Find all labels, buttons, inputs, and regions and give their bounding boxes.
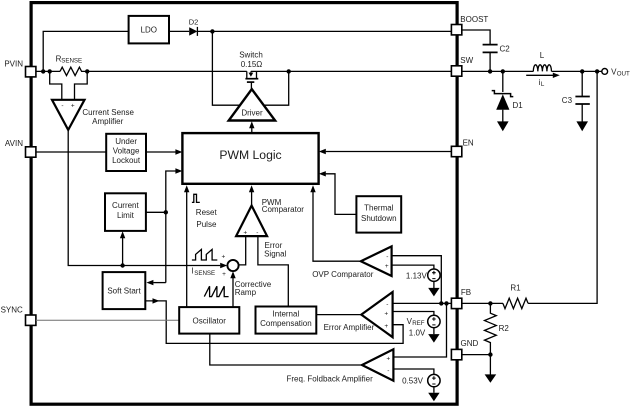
node current limit junction: [164, 210, 168, 214]
block internal compensation: [256, 307, 317, 334]
wire AVIN to UVLO: [36, 151, 106, 153]
wire branch down to driver right: [264, 71, 289, 105]
node C2 junction: [488, 69, 492, 73]
ground D1: [497, 121, 509, 131]
svg-text:Shutdown: Shutdown: [361, 214, 397, 223]
wire thermal shutdown to PWM logic: [326, 174, 357, 215]
svg-text:+: +: [384, 310, 388, 317]
pin AVIN: [5, 139, 36, 157]
svg-text:Comparator: Comparator: [262, 205, 305, 214]
block thermal shutdown: [356, 196, 401, 232]
svg-text:Driver: Driver: [241, 108, 263, 117]
wire LDO to D2: [169, 30, 189, 32]
wire foldback output to oscillator: [210, 334, 362, 365]
svg-text:1.0V: 1.0V: [409, 328, 426, 337]
wire amp output to Isense line: [68, 130, 220, 266]
wire SYNC to oscillator: [36, 319, 179, 321]
svg-text:L: L: [540, 51, 545, 60]
wire current limit output: [146, 211, 166, 213]
wire oscillator to PWM logic (reset): [186, 192, 188, 307]
terminal VOUT: [602, 67, 630, 77]
svg-text:-: -: [61, 103, 63, 110]
pin EN: [451, 138, 474, 156]
svg-text:Soft Start: Soft Start: [107, 286, 141, 295]
svg-text:D2: D2: [189, 17, 199, 26]
node FB divider junction: [595, 69, 599, 73]
svg-text:GND: GND: [461, 339, 479, 348]
ground 0.53V: [433, 387, 435, 393]
regulator LDO: [129, 16, 169, 44]
IC boundary: [31, 3, 457, 405]
svg-text:Amplifier: Amplifier: [92, 117, 123, 126]
svg-text:+: +: [384, 323, 388, 330]
buffer driver: [229, 89, 275, 120]
svg-text:Current: Current: [112, 201, 139, 210]
wire junction up to PWM logic: [166, 171, 176, 283]
svg-text:EN: EN: [463, 138, 474, 147]
wire SW rail to inductor: [462, 70, 534, 72]
svg-text:+: +: [222, 253, 226, 260]
svg-text:+: +: [222, 271, 226, 278]
node current limit tap: [120, 263, 124, 267]
wire GND pin to R2: [462, 354, 491, 356]
node FB-R2 junction: [488, 301, 492, 305]
svg-text:SYNC: SYNC: [1, 305, 23, 314]
pin SYNC: [1, 305, 36, 325]
wire D2 to BOOST pin: [197, 30, 451, 32]
svg-text:R2: R2: [499, 324, 510, 333]
wire comparator plus input to summing node: [239, 236, 246, 265]
ground VREF: [433, 328, 435, 335]
node RSENSE right: [85, 69, 89, 73]
svg-text:L: L: [541, 81, 545, 88]
wire junction down to soft start: [153, 282, 166, 284]
wire OVP minus input to FB: [392, 256, 442, 304]
svg-text:-: -: [386, 301, 388, 308]
svg-text:Compensation: Compensation: [260, 319, 312, 328]
wire R2 to ground: [489, 355, 491, 375]
arrow Isense into summing node: [220, 263, 227, 268]
svg-text:0.53V: 0.53V: [402, 376, 424, 385]
svg-text:-: -: [386, 253, 388, 260]
node boost-driver branch: [210, 29, 214, 33]
wire foldback minus input to 0.53V: [393, 369, 434, 374]
svg-text:SENSE: SENSE: [61, 57, 82, 64]
wire error amp output to compensation: [316, 314, 361, 316]
resistor RSENSE: [60, 67, 87, 75]
op-amp current sense amplifier: [52, 100, 135, 130]
resistor R2: [485, 303, 510, 354]
svg-text:Error Amplifier: Error Amplifier: [324, 323, 375, 332]
svg-text:REF: REF: [412, 320, 425, 327]
wire error amp plus input to Vref: [393, 312, 434, 316]
diode D2: [189, 17, 199, 36]
wire BOOST to C2: [462, 30, 490, 45]
wire LDO branch: [43, 31, 128, 71]
arrow iL: [526, 73, 560, 89]
wire branch down to driver left: [212, 31, 240, 105]
wire soft start output to error amp: [145, 301, 403, 344]
ground 1.13V: [433, 281, 435, 288]
wire EN to PWM logic: [326, 151, 452, 153]
svg-text:Oscillator: Oscillator: [193, 316, 227, 325]
svg-text:AVIN: AVIN: [5, 139, 23, 148]
svg-text:FB: FB: [461, 288, 471, 297]
wire R1 to FB pin: [462, 302, 503, 304]
waveform Isense ramps: [192, 249, 217, 260]
comparator PWM comparator: [236, 206, 267, 237]
source 0.53V: [402, 374, 440, 386]
waveform reset pulse: [192, 194, 200, 202]
svg-text:LDO: LDO: [141, 26, 157, 35]
wire comparator output to PWM logic: [251, 192, 253, 206]
svg-text:SW: SW: [460, 56, 473, 65]
wire UVLO to PWM logic: [146, 151, 176, 153]
wire C2 to SW rail: [489, 52, 491, 71]
pin SW: [451, 56, 473, 76]
wire OVP plus input to 1.13V: [392, 265, 434, 269]
svg-text:Switch: Switch: [239, 51, 263, 60]
svg-text:Pulse: Pulse: [196, 220, 217, 229]
op-amp freq foldback amplifier: [287, 349, 394, 383]
node FB foldback: [444, 301, 448, 305]
wire switch to SW pin: [251, 70, 452, 72]
pin BOOST: [451, 15, 488, 35]
diode D1 schottky: [492, 71, 524, 121]
block PWM logic: [182, 133, 318, 184]
svg-text:R1: R1: [510, 284, 521, 293]
wire inductor to VOUT: [552, 70, 602, 72]
block current limit: [105, 193, 146, 231]
svg-text:+: +: [386, 355, 390, 362]
resistor R1: [503, 284, 528, 309]
node PVIN-LDO branch: [41, 69, 45, 73]
wire foldback plus input to FB: [393, 303, 446, 357]
svg-text:+: +: [385, 263, 389, 270]
node FB ovp: [439, 301, 443, 305]
svg-text:BOOST: BOOST: [460, 15, 488, 24]
ground C3: [576, 121, 588, 131]
node RSENSE left: [48, 69, 52, 73]
svg-text:D1: D1: [513, 101, 524, 110]
svg-text:Lockout: Lockout: [112, 156, 141, 165]
wire VOUT feedback down to R1: [528, 71, 597, 303]
svg-text:Limit: Limit: [117, 211, 135, 220]
svg-text:+: +: [71, 103, 75, 110]
ground R2: [485, 374, 497, 382]
wire current limit input arrow: [122, 238, 124, 266]
svg-text:Current Sense: Current Sense: [82, 108, 134, 117]
svg-text:OVP Comparator: OVP Comparator: [312, 270, 374, 279]
svg-text:Voltage: Voltage: [113, 147, 140, 156]
svg-text:C3: C3: [562, 96, 573, 105]
block soft start: [103, 272, 146, 309]
wire OVP output to PWM logic: [313, 192, 361, 261]
transistor switch 0.15ohm: [239, 51, 263, 90]
comparator OVP: [312, 246, 391, 278]
svg-text:-: -: [387, 367, 389, 374]
node GND-R2 junction: [488, 352, 492, 356]
svg-text:Under: Under: [115, 137, 137, 146]
node C3 junction: [580, 69, 584, 73]
svg-text:1.13V: 1.13V: [406, 272, 428, 281]
wire rail to switch: [87, 70, 247, 72]
capacitor C3: [562, 71, 590, 121]
svg-text:Signal: Signal: [264, 249, 286, 258]
summing node: [222, 253, 239, 278]
block UVLO: [106, 134, 146, 171]
node SW-driver branch: [287, 69, 291, 73]
source 1.13V: [406, 269, 440, 281]
wire oscillator ramp to summing node: [232, 278, 234, 307]
svg-text:SENSE: SENSE: [194, 270, 215, 277]
svg-text:Reset: Reset: [196, 208, 218, 217]
svg-text:Ramp: Ramp: [235, 288, 257, 297]
inductor L: [533, 51, 551, 71]
block oscillator: [179, 307, 239, 334]
op-amp error amplifier: [324, 292, 393, 337]
wire error amp minus input to FB pin: [393, 302, 452, 304]
waveform corrective ramp: [204, 286, 228, 296]
svg-text:OUT: OUT: [617, 70, 630, 77]
svg-text:Thermal: Thermal: [364, 204, 394, 213]
wire PVIN rail: [36, 70, 60, 72]
wire comparator minus input to compensation: [258, 236, 288, 306]
pin PVIN: [4, 60, 36, 77]
svg-text:PWM Logic: PWM Logic: [219, 148, 281, 162]
pin FB: [451, 288, 471, 309]
svg-text:+: +: [243, 229, 247, 236]
wire RSENSE to amp inputs: [50, 71, 87, 99]
svg-text:0.15Ω: 0.15Ω: [241, 60, 263, 69]
svg-text:PVIN: PVIN: [4, 60, 23, 69]
capacitor C2: [483, 45, 511, 54]
svg-text:C2: C2: [500, 45, 511, 54]
svg-text:Internal: Internal: [273, 310, 300, 319]
svg-text:Freq. Foldback Amplifier: Freq. Foldback Amplifier: [287, 375, 374, 384]
wire PWM logic to driver: [251, 128, 253, 134]
svg-text:-: -: [256, 229, 258, 236]
source VREF 1.0V: [407, 315, 440, 337]
pin GND: [451, 339, 478, 360]
node D1 junction: [501, 69, 505, 73]
